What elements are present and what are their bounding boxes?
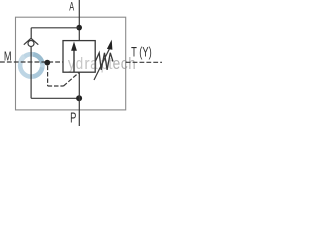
flow arrow shaft in valve: [73, 49, 75, 72]
enclosure (subplate boundary): [16, 17, 126, 110]
svg-text:r: r: [84, 54, 90, 73]
adjustment arrow head: [107, 40, 113, 50]
wire: A port vertical: [78, 0, 80, 41]
valve envelope square: [63, 41, 95, 73]
node junction pilot: [44, 60, 50, 66]
wire: M gauge dashed line: [0, 61, 63, 63]
wire: left vertical upper: [30, 28, 32, 39]
check valve ball: [28, 41, 34, 47]
flow arrow head: [71, 42, 77, 51]
watermark text: [68, 54, 136, 73]
svg-text:P: P: [70, 111, 76, 127]
check valve seat: [24, 38, 39, 44]
node junction P: [76, 95, 82, 101]
wire: pilot dashed vertical: [47, 66, 49, 86]
svg-text:e: e: [113, 54, 121, 73]
wire: bottom horizontal: [31, 97, 79, 99]
wire: pilot dashed diagonal: [64, 72, 80, 86]
svg-text:d: d: [76, 54, 83, 73]
spring: [95, 53, 113, 70]
wire: pilot dashed horizontal: [48, 85, 64, 87]
svg-text:c: c: [121, 54, 128, 73]
svg-text:T (Y): T (Y): [131, 45, 152, 60]
adjustment arrow shaft: [94, 47, 110, 80]
node junction A: [76, 25, 82, 31]
wire: top horizontal: [31, 27, 79, 29]
watermark logo swirl: [20, 54, 42, 76]
svg-text:A: A: [69, 1, 74, 14]
wire: left vertical lower: [30, 47, 32, 99]
wire: T dashed line: [126, 61, 162, 63]
wire: P port vertical: [78, 72, 80, 126]
